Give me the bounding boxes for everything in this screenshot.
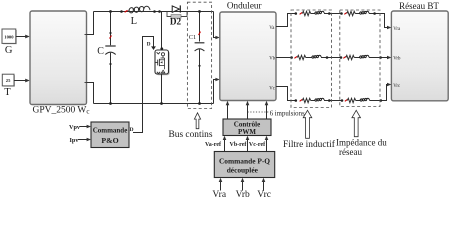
inductor grid phase C xyxy=(360,98,369,101)
red mark phase B grid xyxy=(343,57,346,59)
svg-text:Commande: Commande xyxy=(93,126,128,134)
node phase B mid xyxy=(326,56,329,59)
control block Commande P-Q decouplee xyxy=(214,152,274,178)
wire phase A inverter to filter xyxy=(276,14,296,27)
mosfet boost switch xyxy=(155,50,170,75)
svg-text:Vpv: Vpv xyxy=(69,124,81,131)
pulse arrow 2 PWM to inverter xyxy=(246,101,250,119)
port arrow Vrb xyxy=(387,56,391,60)
node phase B grid in xyxy=(340,56,343,59)
control block PWM xyxy=(223,119,271,136)
red polarity mark L xyxy=(125,10,128,12)
node phase B out xyxy=(379,56,382,59)
pulse arrow 1 PWM to inverter xyxy=(226,101,230,119)
svg-text:Filtre inductif: Filtre inductif xyxy=(283,139,336,150)
wire arrow G to GPV xyxy=(16,35,30,39)
svg-text:Vb: Vb xyxy=(269,56,275,61)
svg-text:C: C xyxy=(97,46,104,57)
red mark phase C grid xyxy=(345,100,348,102)
arrow Vb-ref xyxy=(246,136,250,152)
constant block G=1000 xyxy=(2,29,17,44)
capacitor C plates xyxy=(105,46,115,55)
svg-text:Vc: Vc xyxy=(269,86,275,91)
node junction top rail to C xyxy=(109,10,112,13)
wire xyxy=(324,13,342,15)
wire xyxy=(311,13,315,15)
resistor grid phase A xyxy=(347,11,355,15)
inductor filter phase B xyxy=(312,55,321,58)
svg-text:Ipv: Ipv xyxy=(70,137,80,144)
svg-text:PWM: PWM xyxy=(238,128,256,136)
svg-text:Onduleur: Onduleur xyxy=(227,0,262,10)
node phase A grid branch in xyxy=(340,12,343,15)
dotted leader 6 impulsions xyxy=(248,111,269,113)
red polarity mark C xyxy=(110,36,112,39)
wire phase B inverter to filter xyxy=(276,57,292,59)
node phase B xyxy=(290,56,293,59)
svg-text:C1: C1 xyxy=(189,34,196,41)
svg-text:réseau: réseau xyxy=(339,147,362,157)
node phase C out xyxy=(380,99,383,102)
resistor filter phase C xyxy=(302,98,310,102)
Reseau BT block xyxy=(391,11,448,101)
node C1 top xyxy=(198,10,201,13)
resistor grid phase C xyxy=(347,98,355,102)
resistor filter phase A xyxy=(302,11,310,15)
dashed box DC bus C1 xyxy=(187,2,211,108)
diode D2 xyxy=(167,5,187,18)
svg-text:Vrc: Vrc xyxy=(257,190,271,197)
port arrow Vrc xyxy=(387,83,391,87)
svg-text:Réseau BT: Réseau BT xyxy=(399,1,439,11)
port dot C1 bottom xyxy=(198,65,200,67)
svg-text:Vrb: Vrb xyxy=(393,56,401,61)
svg-text:Commande P-Q: Commande P-Q xyxy=(219,156,270,165)
resistor filter phase B xyxy=(297,55,305,59)
node source on bottom rail xyxy=(160,102,163,105)
svg-text:1000: 1000 xyxy=(4,34,14,39)
arrow Vpv into P&O xyxy=(80,125,92,129)
node mosfet drain branch xyxy=(158,10,161,13)
wire phase A to Vra xyxy=(369,14,388,28)
capacitor C1 plates xyxy=(195,43,205,51)
inductor grid phase A xyxy=(360,11,369,14)
capacitor C branch wire xyxy=(110,12,112,46)
svg-text:D: D xyxy=(147,42,151,48)
wire drain from rail to mosfet xyxy=(161,12,163,50)
wire xyxy=(306,57,312,59)
node phase C xyxy=(295,99,298,102)
red polarity mark C1 xyxy=(199,32,201,35)
wire bottom rail xyxy=(94,103,214,105)
node junction bottom rail C xyxy=(109,102,112,105)
PV array subsystem GPV_2500 Wc xyxy=(30,11,87,105)
wire GPV plus output to top rail xyxy=(87,12,94,35)
svg-text:D2: D2 xyxy=(170,17,182,27)
dashed box grid impedance xyxy=(340,10,380,107)
wire source to bottom rail xyxy=(161,74,163,104)
wire DC plus into inverter xyxy=(214,12,220,40)
svg-text:Vb-ref: Vb-ref xyxy=(230,142,248,148)
node phase C mid xyxy=(328,99,331,102)
hollow arrow grid impedance xyxy=(352,110,361,136)
pulse arrow 3 PWM to inverter xyxy=(265,101,269,119)
svg-text:Vrb: Vrb xyxy=(236,190,250,197)
node after inductor xyxy=(153,10,156,13)
inductor grid phase B xyxy=(360,55,369,58)
arrow Vra into PQ xyxy=(219,178,223,191)
port dot C top xyxy=(109,32,111,34)
port arrow Vra xyxy=(387,26,391,30)
wire top rail xyxy=(94,11,214,13)
gate arrowhead xyxy=(151,46,156,50)
inductor filter phase C xyxy=(315,98,324,101)
wire phase C to Vrc xyxy=(369,85,387,101)
wire mosfet gate from P&O xyxy=(133,37,154,133)
wire xyxy=(354,57,359,59)
wire phase C inverter to filter xyxy=(276,87,296,101)
arrow Vc-ref xyxy=(265,136,269,152)
svg-text:Vrc: Vrc xyxy=(393,84,400,89)
wire phase B to Vrb xyxy=(369,57,388,59)
inductor filter phase A xyxy=(315,11,324,14)
svg-text:G: G xyxy=(5,45,13,56)
svg-text:6 impulsions: 6 impulsions xyxy=(270,111,305,118)
red mark phase A grid xyxy=(344,13,347,15)
red mark phase B filter xyxy=(294,57,297,59)
wire xyxy=(356,100,360,102)
node phase A out xyxy=(373,12,376,15)
wire xyxy=(355,13,359,15)
wire xyxy=(321,57,341,59)
svg-text:Va-ref: Va-ref xyxy=(205,142,222,148)
hollow arrow inductive filter xyxy=(303,110,312,138)
wire DC minus into inverter xyxy=(214,78,220,104)
svg-text:Vra: Vra xyxy=(393,27,401,32)
svg-text:Impédance du: Impédance du xyxy=(336,138,387,148)
wire xyxy=(324,100,342,102)
svg-text:L: L xyxy=(131,16,137,27)
constant block T=25 xyxy=(2,74,15,86)
svg-text:25: 25 xyxy=(6,78,11,83)
resistor grid phase B xyxy=(346,55,354,59)
svg-text:T: T xyxy=(4,87,11,98)
arrow Vrb into PQ xyxy=(241,178,245,191)
wire xyxy=(311,100,315,102)
node phase A mid xyxy=(328,12,331,15)
arrow Ipv into P&O xyxy=(78,138,92,142)
svg-text:Va: Va xyxy=(269,26,275,31)
label Impedance du reseau xyxy=(336,138,387,158)
hollow arrow DC bus xyxy=(194,113,200,129)
control block Commande P&O xyxy=(91,122,129,148)
dashed box inductive filter xyxy=(291,10,332,108)
svg-text:P&O: P&O xyxy=(101,136,118,145)
svg-text:découplée: découplée xyxy=(227,165,259,174)
wire GPV minus output to bottom rail xyxy=(87,83,94,104)
arrow Vrc into PQ xyxy=(262,178,266,191)
node C1 bottom rail xyxy=(198,102,201,105)
svg-text:GPV_2500 Wc: GPV_2500 Wc xyxy=(32,106,89,116)
red mark phase A filter xyxy=(300,13,303,15)
capacitor C1 branch wire xyxy=(199,12,201,42)
svg-text:Vra: Vra xyxy=(212,190,226,197)
port dot C bottom xyxy=(109,63,111,65)
wire arrow T to GPV xyxy=(14,79,30,83)
arrow Va-ref xyxy=(223,136,227,152)
red mark phase C filter xyxy=(300,100,303,102)
svg-text:Vc-ref: Vc-ref xyxy=(249,142,266,148)
node phase C grid in xyxy=(341,99,344,102)
node before inductor xyxy=(120,10,123,13)
node phase A xyxy=(295,12,298,15)
svg-text:D: D xyxy=(130,127,134,133)
inverter block Onduleur xyxy=(220,12,276,101)
inductor L xyxy=(129,6,150,13)
svg-text:Bus contins: Bus contins xyxy=(169,130,213,140)
